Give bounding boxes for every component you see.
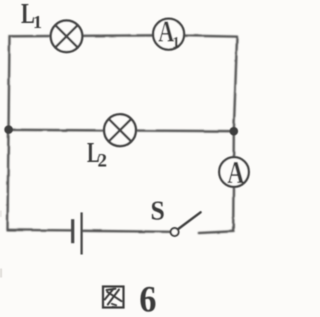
svg-text:1: 1 <box>33 12 42 32</box>
node junction left <box>4 125 13 134</box>
node junction right <box>230 127 239 136</box>
wire bottom battery-to-switch segment <box>83 231 175 232</box>
switch S lever <box>178 212 200 229</box>
caption glyph tu (hand-drawn box character) <box>103 287 124 308</box>
wire middle branch <box>9 130 234 131</box>
switch label S <box>151 196 165 226</box>
battery cell: short negative plate <box>71 219 74 243</box>
svg-text:A: A <box>227 156 245 191</box>
ammeter A1 letter <box>158 14 174 49</box>
battery cell: long positive plate <box>80 212 82 254</box>
caption numeral 6 <box>139 278 156 317</box>
svg-text:6: 6 <box>139 278 156 317</box>
switch S pivot circle <box>171 228 179 236</box>
wire right vertical <box>233 37 237 232</box>
lamp L2 <box>104 114 136 146</box>
wire bottom right segment <box>199 231 233 233</box>
lamp L2 label <box>87 137 100 169</box>
ammeter A letter <box>227 156 245 191</box>
lamp L1 <box>51 21 83 53</box>
wire top horizontal <box>10 35 238 36</box>
scan artifact: left edge smudge upper <box>0 211 2 218</box>
wire bottom left segment <box>8 229 72 232</box>
lamp L1 label <box>21 0 35 30</box>
svg-text:S: S <box>151 196 165 226</box>
scan artifact: left edge smudge lower <box>0 269 2 278</box>
svg-text:2: 2 <box>98 151 108 172</box>
wire left vertical <box>8 36 10 230</box>
ammeter A <box>219 157 249 187</box>
ammeter A1 <box>153 19 184 50</box>
svg-text:1: 1 <box>172 35 180 52</box>
